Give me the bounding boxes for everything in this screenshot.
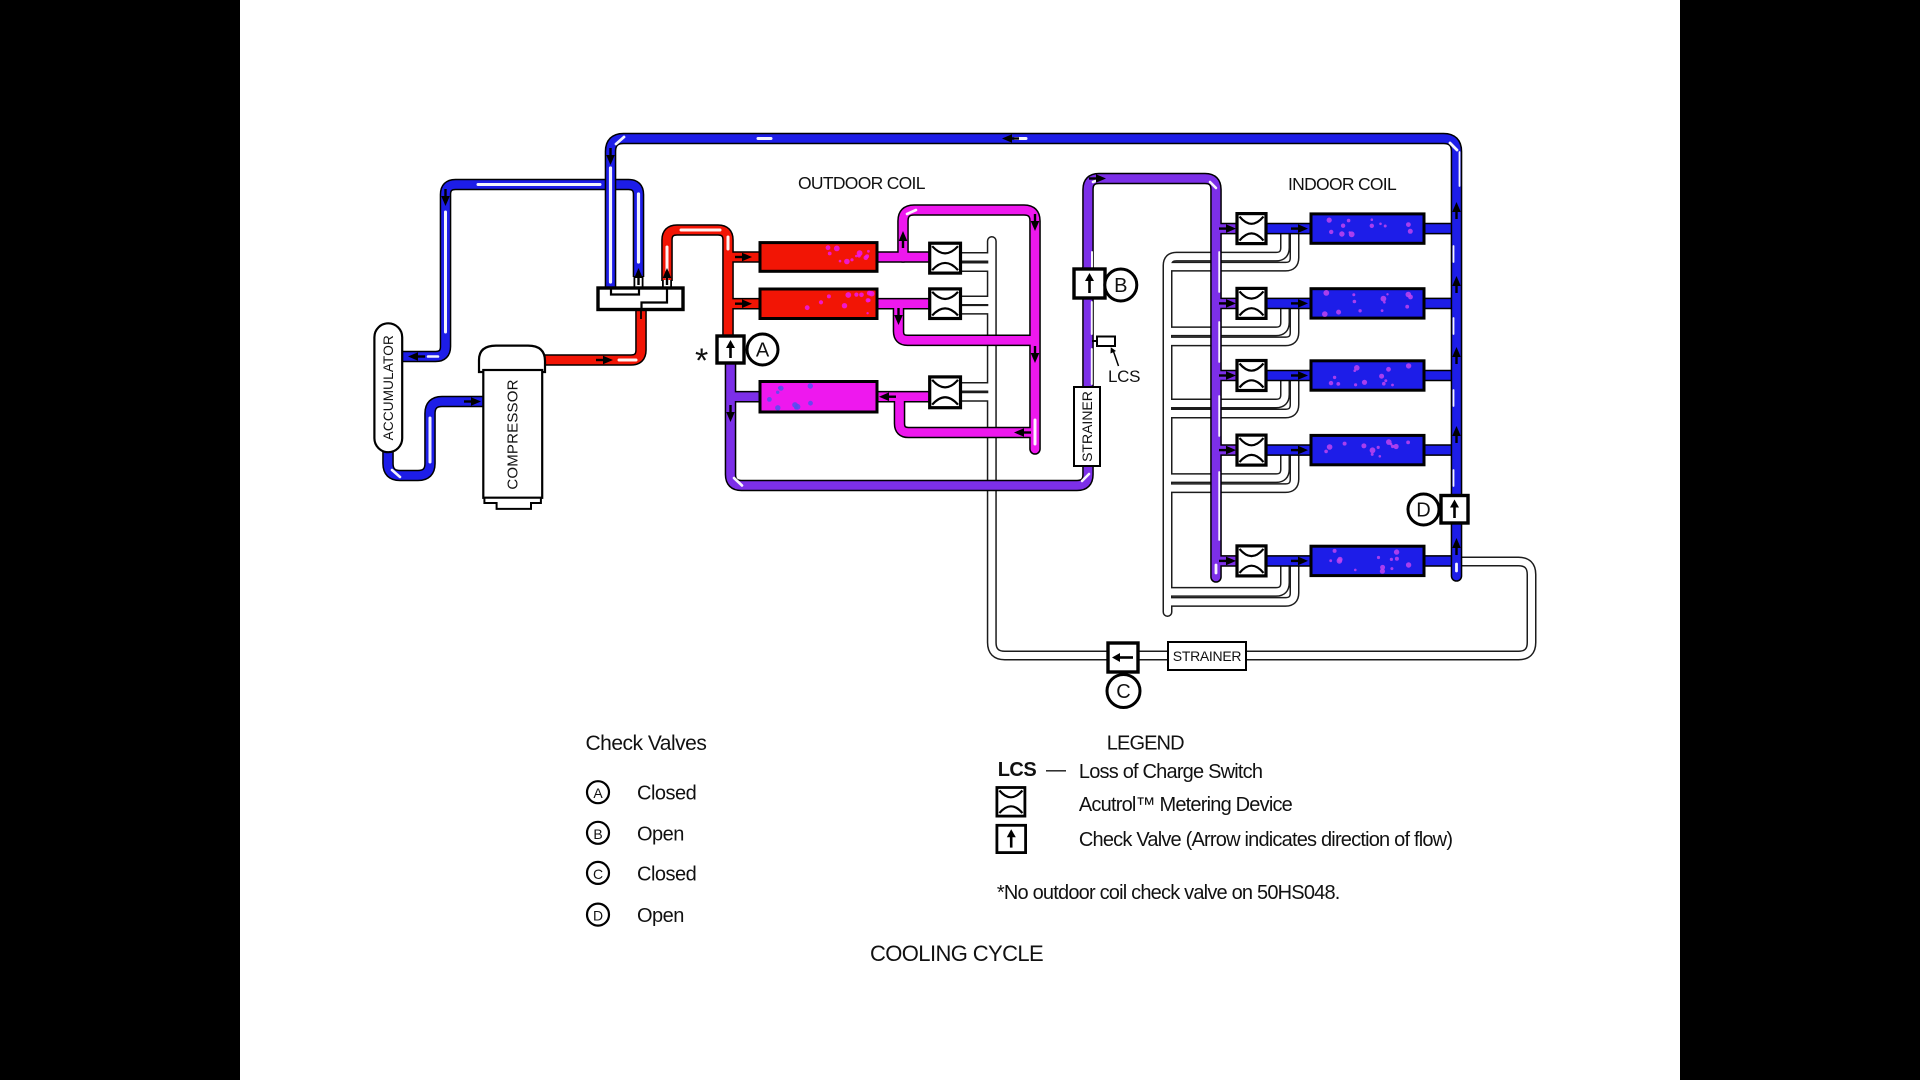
svg-text:LCS: LCS xyxy=(998,759,1037,781)
svg-text:Closed: Closed xyxy=(637,863,696,885)
svg-text:Check Valves: Check Valves xyxy=(586,732,707,755)
svg-text:Acutrol™ Metering Device: Acutrol™ Metering Device xyxy=(1079,794,1293,816)
svg-text:Closed: Closed xyxy=(637,783,696,805)
svg-text:*No outdoor coil check valve o: *No outdoor coil check valve on 50HS048. xyxy=(997,882,1340,904)
svg-text:A: A xyxy=(593,785,603,801)
svg-text:Open: Open xyxy=(637,905,684,927)
svg-text:B: B xyxy=(593,826,602,842)
svg-text:—: — xyxy=(1046,759,1066,781)
svg-text:C: C xyxy=(593,866,603,882)
svg-text:D: D xyxy=(1416,500,1430,522)
svg-text:D: D xyxy=(593,908,603,924)
svg-text:OUTDOOR COIL: OUTDOOR COIL xyxy=(798,173,926,193)
svg-text:INDOOR COIL: INDOOR COIL xyxy=(1288,174,1397,194)
svg-text:Open: Open xyxy=(637,823,684,845)
svg-text:*: * xyxy=(695,342,708,380)
svg-text:COMPRESSOR: COMPRESSOR xyxy=(505,379,522,489)
svg-text:Loss of Charge Switch: Loss of Charge Switch xyxy=(1079,761,1262,783)
svg-text:STRAINER: STRAINER xyxy=(1079,391,1095,462)
svg-text:A: A xyxy=(756,340,770,362)
svg-text:B: B xyxy=(1114,275,1127,297)
svg-text:LEGEND: LEGEND xyxy=(1107,733,1184,755)
svg-text:STRAINER: STRAINER xyxy=(1173,648,1242,664)
svg-text:LCS: LCS xyxy=(1108,367,1140,386)
svg-text:C: C xyxy=(1116,681,1130,703)
svg-text:ACCUMULATOR: ACCUMULATOR xyxy=(381,335,396,440)
svg-text:Check Valve (Arrow indicates d: Check Valve (Arrow indicates direction o… xyxy=(1079,829,1452,851)
svg-text:COOLING CYCLE: COOLING CYCLE xyxy=(870,941,1043,966)
